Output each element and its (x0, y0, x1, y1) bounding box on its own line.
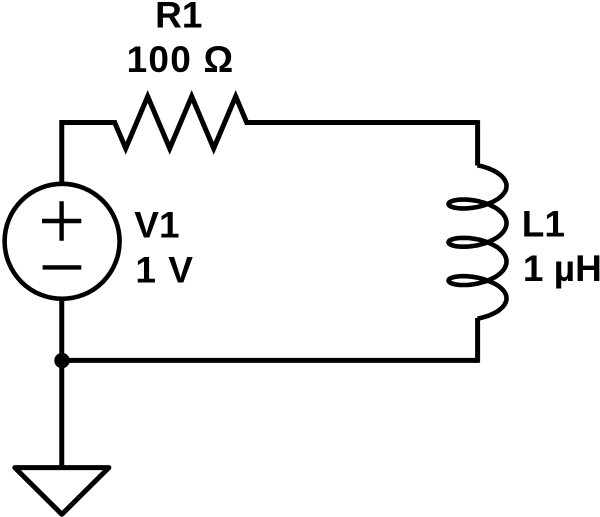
svg-text:R1: R1 (155, 0, 202, 35)
svg-text:L1: L1 (522, 203, 565, 244)
svg-text:1 µH: 1 µH (523, 248, 600, 289)
svg-text:V1: V1 (134, 204, 179, 245)
svg-text:100 Ω: 100 Ω (127, 39, 235, 80)
svg-text:1 V: 1 V (135, 249, 194, 290)
